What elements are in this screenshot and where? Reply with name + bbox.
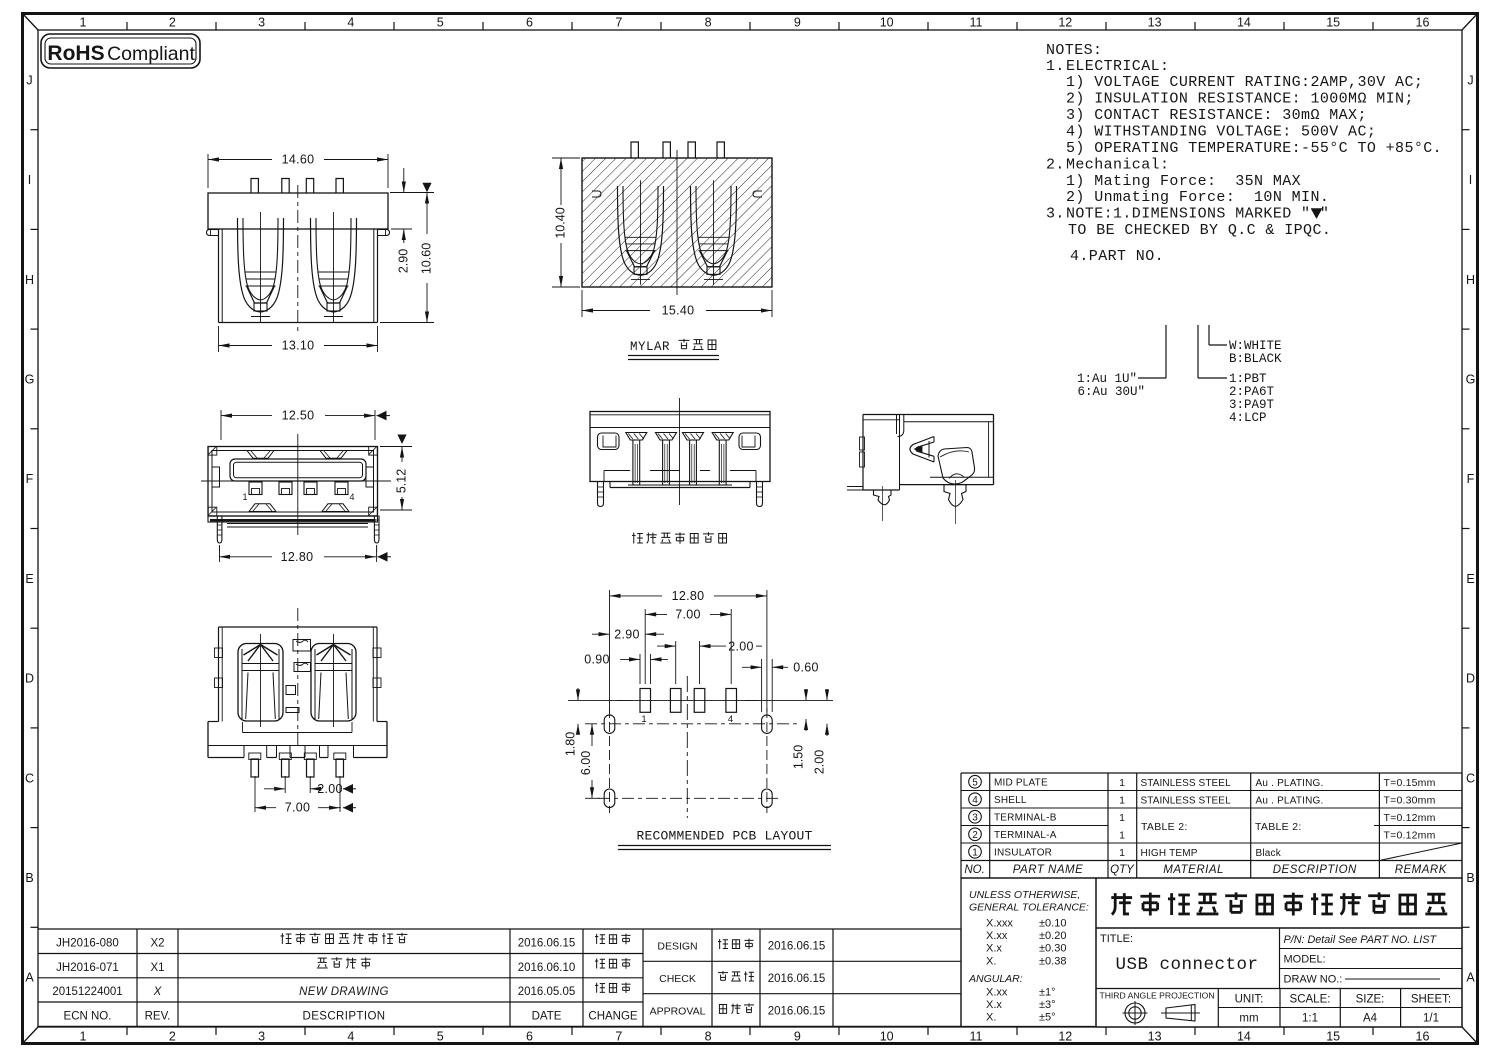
label hanzi: shell riveting view bbox=[632, 533, 643, 544]
part number decode tree bbox=[1077, 325, 1282, 425]
parts list table bbox=[961, 773, 1462, 878]
svg-text:MODEL:: MODEL: bbox=[1284, 954, 1326, 966]
dim 13.10 bbox=[218, 326, 220, 352]
left contact bbox=[618, 180, 664, 285]
svg-text:D: D bbox=[25, 672, 34, 686]
crosshair centerlines bbox=[297, 434, 299, 535]
svg-text:7: 7 bbox=[615, 1030, 622, 1044]
bottom edge with slots bbox=[208, 757, 244, 759]
svg-text:13: 13 bbox=[1148, 1030, 1162, 1044]
svg-text:E: E bbox=[25, 572, 33, 586]
svg-text:4: 4 bbox=[349, 492, 354, 502]
svg-text:X2: X2 bbox=[150, 938, 164, 950]
svg-text:2.00: 2.00 bbox=[813, 750, 827, 774]
svg-text:1:Au 1U": 1:Au 1U" bbox=[1077, 372, 1137, 386]
svg-text:RoHS: RoHS bbox=[47, 42, 104, 65]
svg-text:1:1: 1:1 bbox=[1302, 1013, 1318, 1025]
tongue bbox=[230, 459, 366, 481]
svg-text:5.12: 5.12 bbox=[395, 469, 409, 493]
svg-text:2) INSULATION RESISTANCE: 1000: 2) INSULATION RESISTANCE: 1000MΩ MIN; bbox=[1066, 91, 1414, 108]
right spring contact bbox=[311, 212, 357, 322]
svg-text:Mechanical:: Mechanical: bbox=[1066, 157, 1169, 174]
svg-text:4:LCP: 4:LCP bbox=[1229, 411, 1267, 425]
legs bbox=[598, 482, 604, 507]
svg-text:B: B bbox=[1466, 871, 1474, 885]
svg-text:3: 3 bbox=[258, 1030, 265, 1044]
view B: front face view bbox=[201, 409, 412, 564]
svg-text:±3°: ±3° bbox=[1039, 999, 1056, 1011]
svg-text:SHELL: SHELL bbox=[994, 795, 1027, 806]
svg-text:I: I bbox=[1469, 173, 1472, 187]
corner rivet marks bbox=[208, 447, 217, 456]
svg-text:I: I bbox=[28, 173, 31, 187]
svg-text:13.10: 13.10 bbox=[282, 339, 315, 353]
mounting slots bbox=[604, 715, 615, 734]
svg-text:B:BLACK: B:BLACK bbox=[1229, 352, 1282, 366]
svg-text:X.x: X.x bbox=[986, 943, 1002, 955]
svg-text:5: 5 bbox=[437, 1030, 444, 1044]
svg-text:1: 1 bbox=[1119, 847, 1125, 859]
svg-text:10.60: 10.60 bbox=[420, 243, 434, 274]
svg-text:2016.06.15: 2016.06.15 bbox=[768, 941, 826, 953]
right contact bbox=[691, 180, 737, 285]
svg-text:JH2016-071: JH2016-071 bbox=[56, 962, 119, 974]
left contact (rounded shell + tapered insert) bbox=[238, 634, 283, 727]
notes text block bbox=[1046, 42, 1442, 265]
svg-text:3.: 3. bbox=[1046, 206, 1065, 223]
svg-text:MATERIAL: MATERIAL bbox=[1163, 864, 1224, 876]
svg-text:2.00: 2.00 bbox=[728, 639, 754, 653]
svg-text:SCALE:: SCALE: bbox=[1290, 994, 1331, 1006]
view A: connector top view bbox=[207, 153, 435, 353]
svg-text:±0.20: ±0.20 bbox=[1039, 930, 1066, 942]
svg-text:15: 15 bbox=[1326, 1030, 1340, 1044]
svg-text:H: H bbox=[25, 273, 34, 287]
svg-text:1) VOLTAGE CURRENT RATING:2AMP: 1) VOLTAGE CURRENT RATING:2AMP,30V AC; bbox=[1066, 74, 1423, 91]
svg-text:T=0.12mm: T=0.12mm bbox=[1384, 812, 1436, 824]
revision history table bbox=[38, 929, 961, 1026]
svg-text:1.50: 1.50 bbox=[792, 745, 806, 769]
svg-text:1: 1 bbox=[1119, 812, 1125, 824]
svg-text:20151224001: 20151224001 bbox=[52, 986, 122, 998]
svg-text:NOTE:1.DIMENSIONS MARKED " ": NOTE:1.DIMENSIONS MARKED " " bbox=[1066, 206, 1329, 223]
svg-text:1: 1 bbox=[1119, 795, 1125, 807]
svg-text:1.80: 1.80 bbox=[564, 732, 578, 756]
third angle projection symbol bbox=[1125, 1003, 1145, 1023]
svg-text:0.60: 0.60 bbox=[793, 661, 819, 675]
svg-text:P/N: Detail See PART NO. LIST: P/N: Detail See PART NO. LIST bbox=[1284, 934, 1438, 946]
svg-text:F: F bbox=[26, 472, 34, 486]
svg-text:2016.05.05: 2016.05.05 bbox=[518, 986, 576, 998]
svg-text:2016.06.10: 2016.06.10 bbox=[518, 962, 576, 974]
dim 2.00 right bbox=[745, 699, 833, 701]
svg-text:11: 11 bbox=[970, 1030, 983, 1044]
svg-text:W:WHITE: W:WHITE bbox=[1229, 339, 1282, 353]
shell body right part bbox=[904, 421, 994, 423]
svg-text:A: A bbox=[25, 971, 34, 985]
dashed construction lines bbox=[609, 708, 611, 813]
svg-text:ELECTRICAL:: ELECTRICAL: bbox=[1066, 58, 1169, 75]
dashed centerline bbox=[297, 608, 299, 748]
mounting posts bbox=[217, 516, 222, 544]
svg-text:12.80: 12.80 bbox=[281, 550, 314, 564]
top latch cutouts bbox=[247, 451, 274, 459]
spring arm (sideways V) bbox=[910, 437, 934, 463]
shell top channel bbox=[896, 415, 898, 435]
svg-text:1.: 1. bbox=[1046, 58, 1065, 75]
svg-text:1) Mating Force: 35N MAX: 1) Mating Force: 35N MAX bbox=[1066, 173, 1301, 190]
svg-text:1/1: 1/1 bbox=[1423, 1013, 1439, 1025]
svg-text:G: G bbox=[25, 372, 35, 386]
dim 6.00 bbox=[591, 724, 593, 746]
svg-text:4: 4 bbox=[347, 1030, 354, 1044]
svg-text:2: 2 bbox=[169, 1030, 176, 1044]
dim 1.80 bbox=[568, 699, 632, 701]
svg-text:16: 16 bbox=[1416, 16, 1430, 30]
left leg bbox=[874, 490, 892, 505]
svg-text:E: E bbox=[1466, 572, 1474, 586]
svg-text:2: 2 bbox=[169, 16, 176, 30]
svg-text:RECOMMENDED PCB LAYOUT: RECOMMENDED PCB LAYOUT bbox=[636, 829, 812, 844]
svg-text:CHECK: CHECK bbox=[659, 973, 696, 985]
dim 2.90 bbox=[390, 192, 434, 194]
change-by names hanzi bbox=[595, 934, 605, 944]
dim 10.60 bbox=[380, 322, 434, 324]
svg-text:SIZE:: SIZE: bbox=[1356, 994, 1385, 1006]
svg-text:TABLE 2:: TABLE 2: bbox=[1141, 821, 1188, 833]
svg-text:C: C bbox=[1466, 771, 1475, 785]
svg-text:T=0.12mm: T=0.12mm bbox=[1384, 830, 1436, 842]
center line bbox=[676, 150, 678, 295]
dim 7.00 bbox=[254, 776, 256, 812]
view F: side view bbox=[847, 415, 994, 525]
solder pins on top bbox=[251, 179, 258, 194]
left tab bbox=[592, 191, 601, 197]
svg-text:14: 14 bbox=[1237, 16, 1251, 30]
svg-text:Au . PLATING.: Au . PLATING. bbox=[1256, 778, 1324, 789]
svg-text:15: 15 bbox=[1326, 16, 1340, 30]
right leg bbox=[944, 485, 966, 507]
svg-text:16: 16 bbox=[1416, 1030, 1430, 1044]
svg-text:±1°: ±1° bbox=[1039, 987, 1056, 999]
right tab bbox=[753, 191, 762, 197]
svg-text:UNLESS OTHERWISE,: UNLESS OTHERWISE, bbox=[969, 889, 1080, 901]
svg-text:2016.06.15: 2016.06.15 bbox=[518, 938, 576, 950]
svg-text:2016.06.15: 2016.06.15 bbox=[768, 973, 826, 985]
svg-text:J: J bbox=[26, 73, 32, 87]
svg-text:6: 6 bbox=[526, 16, 533, 30]
svg-text:mm: mm bbox=[1239, 1013, 1258, 1025]
svg-text:DATE: DATE bbox=[532, 1010, 562, 1022]
approval block bbox=[643, 928, 961, 930]
body side walls bbox=[218, 229, 220, 323]
svg-text:T=0.15mm: T=0.15mm bbox=[1384, 777, 1436, 789]
svg-text:G: G bbox=[1466, 372, 1476, 386]
svg-text:DESIGN: DESIGN bbox=[657, 941, 697, 953]
svg-text:Au . PLATING.: Au . PLATING. bbox=[1256, 796, 1324, 807]
svg-text:9: 9 bbox=[794, 1030, 801, 1044]
svg-text:NEW DRAWING: NEW DRAWING bbox=[299, 986, 389, 998]
svg-text:F: F bbox=[1467, 472, 1475, 486]
svg-text:10.40: 10.40 bbox=[554, 207, 568, 238]
dim 2.00 pads bbox=[675, 641, 677, 684]
solder pins bottom bbox=[249, 753, 261, 760]
svg-text:12: 12 bbox=[1058, 16, 1072, 30]
center latch cutouts bbox=[293, 640, 311, 652]
svg-text:12.80: 12.80 bbox=[672, 589, 705, 603]
view D: MYLAR section view bbox=[552, 142, 772, 360]
svg-text:±5°: ±5° bbox=[1039, 1012, 1056, 1024]
dim 1.50 bbox=[805, 689, 807, 700]
bottom left stub bbox=[847, 486, 863, 488]
company name hanzi (vector strokes) bbox=[1111, 893, 1132, 914]
svg-text:ANGULAR:: ANGULAR: bbox=[968, 973, 1023, 985]
left spring contact bbox=[238, 212, 284, 322]
svg-text:14: 14 bbox=[1237, 1030, 1251, 1044]
svg-text:14.60: 14.60 bbox=[282, 153, 315, 167]
svg-text:5: 5 bbox=[437, 16, 444, 30]
svg-text:INSULATOR: INSULATOR bbox=[994, 848, 1052, 859]
upper body outline bbox=[219, 626, 378, 628]
svg-text:X.x: X.x bbox=[986, 999, 1002, 1011]
approver names hanzi bbox=[718, 939, 728, 949]
svg-text:T=0.30mm: T=0.30mm bbox=[1384, 795, 1436, 807]
revision description hanzi bbox=[281, 933, 292, 944]
base plate bbox=[208, 516, 378, 522]
dim 12.50 bbox=[220, 410, 222, 440]
svg-text:1:PBT: 1:PBT bbox=[1229, 372, 1267, 386]
svg-text:±0.38: ±0.38 bbox=[1039, 955, 1066, 967]
view C: bottom view with pins bbox=[208, 608, 387, 815]
dim 15.40 bbox=[581, 290, 583, 317]
flange outline bbox=[208, 193, 388, 229]
left edge notches bbox=[860, 437, 865, 450]
svg-text:2.90: 2.90 bbox=[614, 627, 640, 641]
svg-text:DESCRIPTION: DESCRIPTION bbox=[303, 1010, 386, 1022]
svg-text:8: 8 bbox=[705, 16, 712, 30]
svg-text:10: 10 bbox=[880, 16, 894, 30]
svg-text:2: 2 bbox=[972, 830, 978, 841]
svg-text:CHANGE: CHANGE bbox=[588, 1010, 638, 1022]
svg-text:MID PLATE: MID PLATE bbox=[994, 778, 1048, 789]
dim 5.12 with triangle bbox=[397, 435, 406, 445]
svg-text:ECN NO.: ECN NO. bbox=[64, 1010, 112, 1022]
svg-text:15.40: 15.40 bbox=[662, 304, 695, 318]
svg-text:PART NAME: PART NAME bbox=[1013, 864, 1084, 876]
svg-text:7.00: 7.00 bbox=[675, 608, 701, 622]
svg-text:6.00: 6.00 bbox=[579, 751, 593, 775]
svg-text:STAINLESS STEEL: STAINLESS STEEL bbox=[1141, 778, 1232, 789]
right mounting tab bbox=[378, 230, 390, 236]
svg-text:11: 11 bbox=[970, 16, 983, 30]
svg-text:12.50: 12.50 bbox=[282, 409, 315, 423]
svg-text:QTY: QTY bbox=[1110, 864, 1135, 876]
svg-text:2016.06.15: 2016.06.15 bbox=[768, 1005, 826, 1017]
svg-text:NOTES:: NOTES: bbox=[1046, 42, 1102, 59]
svg-text:3: 3 bbox=[258, 16, 265, 30]
body block bbox=[863, 414, 994, 416]
bottom latch cutouts bbox=[249, 504, 276, 512]
svg-text:SHEET:: SHEET: bbox=[1411, 994, 1451, 1006]
svg-text:1: 1 bbox=[1119, 777, 1125, 789]
hatched block bbox=[582, 158, 772, 287]
svg-text:6: 6 bbox=[526, 1030, 533, 1044]
svg-text:±0.30: ±0.30 bbox=[1039, 943, 1066, 955]
svg-text:2.90: 2.90 bbox=[397, 249, 411, 273]
svg-text:APPROVAL: APPROVAL bbox=[650, 1005, 706, 1017]
view G: recommended PCB layout bbox=[564, 589, 834, 850]
svg-text:3:PA9T: 3:PA9T bbox=[1229, 398, 1275, 412]
side rail notches bbox=[215, 648, 223, 658]
svg-text:1: 1 bbox=[1119, 830, 1125, 842]
mid step lines bbox=[604, 470, 756, 472]
svg-text:4: 4 bbox=[347, 16, 354, 30]
shell outer bbox=[208, 447, 378, 517]
svg-text:NO.: NO. bbox=[964, 864, 984, 876]
dim 2.00 between pins bbox=[284, 776, 286, 793]
inspection triangle bbox=[422, 183, 431, 193]
svg-text:X.xxx: X.xxx bbox=[986, 918, 1013, 930]
svg-text:3) CONTACT RESISTANCE: 30mΩ MA: 3) CONTACT RESISTANCE: 30mΩ MAX; bbox=[1066, 107, 1367, 124]
svg-text:UNIT:: UNIT: bbox=[1235, 994, 1264, 1006]
terminal posts bbox=[626, 433, 647, 486]
dim 0.60 bbox=[761, 659, 763, 712]
dim 12.80 bbox=[219, 545, 221, 562]
svg-text:TITLE:: TITLE: bbox=[1100, 933, 1133, 945]
svg-text:1: 1 bbox=[972, 847, 978, 858]
svg-text:TO BE CHECKED BY Q.C & IPQC.: TO BE CHECKED BY Q.C & IPQC. bbox=[1068, 222, 1331, 239]
contact tabs bbox=[249, 482, 262, 495]
svg-text:JH2016-080: JH2016-080 bbox=[56, 938, 119, 950]
svg-text:Black: Black bbox=[1256, 848, 1282, 859]
svg-text:C: C bbox=[25, 771, 34, 785]
svg-text:X1: X1 bbox=[150, 962, 164, 974]
svg-text:Compliant: Compliant bbox=[107, 43, 195, 65]
flange step bbox=[208, 721, 219, 723]
svg-text:DRAW NO.:: DRAW NO.: bbox=[1284, 974, 1343, 986]
svg-text:X: X bbox=[153, 986, 163, 998]
vertical dashed centerline bbox=[297, 185, 299, 335]
dim 12.80 bbox=[609, 590, 611, 712]
svg-text:13: 13 bbox=[1148, 16, 1162, 30]
svg-text:5: 5 bbox=[972, 777, 978, 788]
svg-text:X.xx: X.xx bbox=[986, 930, 1008, 942]
svg-text:2.00: 2.00 bbox=[317, 782, 343, 796]
svg-text:2) Unmating Force: 10N MIN.: 2) Unmating Force: 10N MIN. bbox=[1066, 189, 1329, 206]
svg-text:8: 8 bbox=[705, 1030, 712, 1044]
svg-text:1: 1 bbox=[80, 1030, 87, 1044]
svg-text:A4: A4 bbox=[1363, 1013, 1378, 1025]
svg-text:2:PA6T: 2:PA6T bbox=[1229, 385, 1275, 399]
svg-text:6:Au 30U": 6:Au 30U" bbox=[1077, 385, 1145, 399]
svg-text:D: D bbox=[1466, 672, 1475, 686]
svg-text:4) WITHSTANDING VOLTAGE: 500V: 4) WITHSTANDING VOLTAGE: 500V AC; bbox=[1066, 124, 1376, 141]
svg-text:DESCRIPTION: DESCRIPTION bbox=[1273, 864, 1357, 876]
dim 7.00 bbox=[644, 609, 646, 684]
svg-text:2.: 2. bbox=[1046, 157, 1065, 174]
left hole bbox=[598, 433, 620, 450]
svg-text:B: B bbox=[25, 871, 33, 885]
right hole bbox=[739, 433, 761, 450]
svg-text:9: 9 bbox=[794, 16, 801, 30]
svg-text:7.00: 7.00 bbox=[285, 801, 311, 815]
side notches bbox=[212, 467, 220, 487]
svg-text:±0.10: ±0.10 bbox=[1039, 918, 1066, 930]
svg-text:X.: X. bbox=[986, 1012, 996, 1024]
left mounting tab bbox=[207, 230, 219, 236]
svg-text:0.90: 0.90 bbox=[584, 653, 610, 667]
svg-text:J: J bbox=[1467, 73, 1473, 87]
svg-text:10: 10 bbox=[880, 1030, 894, 1044]
title block bbox=[961, 878, 1462, 1027]
dim 10.40 bbox=[552, 157, 580, 159]
svg-text:TABLE 2:: TABLE 2: bbox=[1255, 821, 1302, 833]
solder pins on top bbox=[631, 142, 638, 158]
svg-text:X.xx: X.xx bbox=[986, 987, 1008, 999]
svg-text:THIRD ANGLE PROJECTION: THIRD ANGLE PROJECTION bbox=[1099, 991, 1214, 1001]
svg-text:1: 1 bbox=[80, 16, 87, 30]
svg-text:X.: X. bbox=[986, 955, 996, 967]
svg-text:1: 1 bbox=[242, 492, 247, 502]
svg-text:GENERAL TOLERANCE:: GENERAL TOLERANCE: bbox=[969, 902, 1089, 914]
svg-text:4: 4 bbox=[972, 795, 978, 806]
svg-text:MYLAR: MYLAR bbox=[630, 340, 670, 354]
svg-text:3: 3 bbox=[972, 812, 978, 823]
svg-text:12: 12 bbox=[1058, 1030, 1072, 1044]
svg-text:STAINLESS STEEL: STAINLESS STEEL bbox=[1141, 796, 1232, 807]
view E: shell riveting face view bbox=[590, 398, 770, 544]
svg-text:TERMINAL-B: TERMINAL-B bbox=[994, 813, 1057, 824]
svg-text:REMARK: REMARK bbox=[1395, 864, 1448, 876]
svg-text:H: H bbox=[1466, 273, 1475, 287]
svg-text:5) OPERATING TEMPERATURE:-55°C: 5) OPERATING TEMPERATURE:-55°C TO +85°C. bbox=[1066, 140, 1442, 157]
svg-text:TERMINAL-A: TERMINAL-A bbox=[994, 830, 1057, 841]
pads bbox=[640, 689, 651, 713]
RoHS Compliant badge bbox=[41, 34, 200, 68]
svg-text:HIGH TEMP: HIGH TEMP bbox=[1141, 848, 1198, 859]
lower center block bbox=[609, 482, 611, 488]
svg-text:REV.: REV. bbox=[145, 1010, 171, 1022]
svg-text:A: A bbox=[1466, 971, 1475, 985]
svg-text:4.PART NO.: 4.PART NO. bbox=[1070, 248, 1164, 265]
dim 2.90 bbox=[592, 633, 610, 635]
dim 0.90 bbox=[639, 654, 641, 684]
contact blob bbox=[938, 448, 975, 485]
svg-text:7: 7 bbox=[615, 16, 622, 30]
center line bbox=[679, 398, 681, 505]
svg-text:USB connector: USB connector bbox=[1115, 955, 1258, 975]
dim 14.60 bbox=[207, 154, 209, 188]
